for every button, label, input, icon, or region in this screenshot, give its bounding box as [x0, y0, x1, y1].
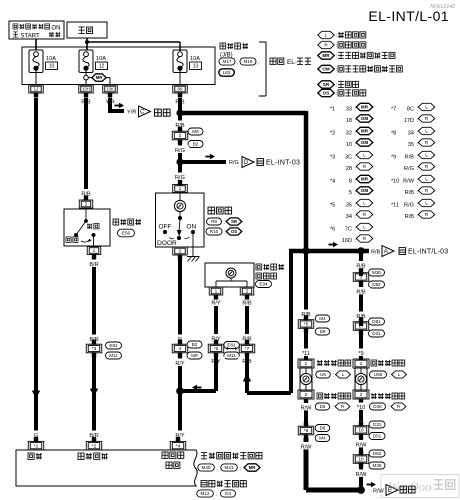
svg-text:R/B: R/B: [405, 155, 415, 161]
svg-text:ON: ON: [187, 223, 197, 230]
svg-text:10A: 10A: [190, 56, 200, 62]
connector *8 (D8/M4): [298, 422, 314, 440]
node: junction at left footwell feed: [302, 247, 310, 255]
svg-text:D51: D51: [373, 434, 382, 439]
svg-text:M9: M9: [192, 129, 199, 134]
svg-text:SR: SR: [231, 219, 238, 224]
connector 1J: [29, 85, 44, 98]
time control unit label and badges: [197, 481, 247, 499]
svg-text:1: 1: [360, 361, 363, 367]
right step lamp bulb: [355, 373, 366, 384]
connector 4 (B2/M9): [172, 340, 188, 358]
svg-text:OS: OS: [323, 91, 330, 96]
svg-text:R/W: R/W: [356, 442, 368, 448]
svg-text:OM: OM: [361, 140, 369, 145]
svg-text:*9: *9: [391, 155, 396, 161]
arrow on R/G horizontal wire: [206, 154, 216, 160]
svg-text:B2: B2: [192, 342, 198, 347]
label R/B above key switch: [77, 189, 95, 197]
wire: ignition feed stub: [35, 39, 37, 50]
badges E81 M11 shared between *6 and *7: [224, 342, 240, 360]
wire *9 color to right lamp: [359, 333, 363, 360]
svg-text:EL-INT/L-03: EL-INT/L-03: [408, 249, 448, 256]
svg-text:R10: R10: [210, 229, 219, 234]
svg-text:10: 10: [49, 64, 55, 70]
svg-text:,: ,: [237, 60, 238, 66]
svg-text::: :: [355, 227, 356, 233]
svg-text:M41: M41: [225, 465, 234, 470]
svg-text:10: 10: [346, 142, 352, 148]
svg-text:R/B: R/B: [356, 289, 366, 295]
connector *5 (M4/D6): [298, 315, 314, 333]
svg-text::: :: [417, 118, 418, 124]
svg-text:D31: D31: [372, 331, 381, 336]
wire: fuse F1 to connector 1J: [35, 70, 37, 85]
svg-text:17: 17: [358, 324, 364, 330]
fuse box name and connector badges M17 M19 L63: [219, 43, 260, 76]
svg-text:18: 18: [346, 118, 352, 124]
svg-text:OS: OS: [231, 229, 237, 234]
wire R/B junction to connector 2: [178, 113, 182, 127]
svg-text:R/W: R/W: [356, 472, 368, 478]
label ignition inside box: [28, 453, 34, 459]
badges D8 M4 at *8: [315, 425, 330, 442]
svg-text::: :: [388, 405, 389, 411]
svg-text:*3: *3: [330, 155, 335, 161]
node: junction R/B to EL-INT/L-03 feed: [176, 109, 183, 116]
svg-text::: :: [389, 373, 390, 379]
svg-text:R/Y: R/Y: [175, 361, 185, 367]
svg-text:*6: *6: [330, 227, 335, 233]
svg-text:M11: M11: [109, 353, 118, 358]
svg-text:D82: D82: [372, 282, 381, 287]
svg-text:R/W: R/W: [301, 405, 313, 411]
svg-text:R/G: R/G: [175, 175, 185, 181]
page reference A to EL-INT/L-03: [382, 246, 448, 257]
node: bottom junction R/W: [357, 486, 365, 494]
svg-text:7C: 7C: [345, 227, 352, 233]
wire B/R from key switch down: [92, 254, 96, 336]
node: battery branch junction: [85, 40, 89, 44]
label R/Y below connector 4: [171, 359, 189, 367]
svg-text:*2: *2: [92, 443, 97, 449]
arrow on Y/R wire: [115, 103, 125, 109]
svg-text:R/B: R/B: [405, 214, 415, 220]
svg-text:35: 35: [408, 142, 414, 148]
wire: battery feed stub and branch to fuse 3: [87, 38, 180, 51]
room lamp pin 2: [173, 247, 188, 260]
svg-text:M4: M4: [319, 436, 326, 441]
arrow right at bottom junction: [367, 482, 377, 488]
label R/G above room lamp: [171, 173, 189, 181]
label R/B above connector 2: [171, 121, 189, 129]
svg-text:1: 1: [179, 186, 182, 192]
svg-text:.: .: [217, 466, 218, 472]
connector 8K: [173, 85, 188, 98]
connector 10 (D62/M36): [353, 450, 369, 468]
svg-text:*7: *7: [245, 346, 250, 352]
connector 16 (G31/D51): [353, 421, 369, 439]
svg-text:34: 34: [408, 131, 414, 137]
svg-text:10K: 10K: [106, 86, 114, 91]
wire R/Y junction to *4: [178, 391, 182, 431]
svg-text:*3: *3: [92, 346, 97, 352]
svg-text:10A: 10A: [46, 56, 56, 62]
smart entry control unit label and badges: [198, 453, 262, 473]
svg-text:2: 2: [179, 249, 182, 255]
svg-text::: :: [355, 155, 356, 161]
svg-text::: :: [355, 238, 356, 244]
badges M9 B2 at connector 2: [188, 128, 203, 148]
svg-text:R/G: R/G: [404, 166, 414, 172]
label R/B above connector 3: [352, 261, 370, 269]
variant pin table: [330, 103, 435, 244]
wire R/B stub to page A: [361, 249, 369, 254]
box: ignition switch ON/START condition: [9, 21, 64, 40]
svg-text:M40: M40: [202, 465, 211, 470]
label R/B below *7: [238, 357, 256, 365]
label B/R below key switch: [85, 260, 103, 268]
right step lamp pin 2: [353, 390, 369, 399]
label R/Y above *4: [171, 431, 189, 440]
svg-text:R/Y: R/Y: [211, 301, 221, 307]
svg-text:G31: G31: [373, 422, 382, 427]
wire R room lamp to connector 4: [178, 258, 182, 336]
svg-text::: :: [417, 166, 418, 172]
svg-text:8: 8: [349, 179, 352, 185]
svg-text:L: L: [363, 201, 366, 206]
svg-text:L: L: [425, 153, 428, 158]
svg-text:R/G: R/G: [229, 160, 239, 166]
svg-text:16D: 16D: [342, 238, 352, 244]
connector *7: [239, 340, 255, 358]
badges M30 D82 at connector 3: [369, 269, 385, 288]
fuse F2 10A #12: [79, 50, 108, 73]
svg-text:M9: M9: [191, 353, 198, 358]
svg-text:NFEL0142: NFEL0142: [430, 4, 455, 10]
svg-text:2: 2: [246, 289, 249, 295]
label R/W above elbow: [297, 442, 315, 450]
label R/Y above *6: [207, 334, 225, 342]
svg-text:*11: *11: [391, 203, 399, 209]
svg-text:L: L: [363, 153, 366, 158]
right step lamp labels RHD: [370, 393, 407, 411]
svg-text:D6: D6: [320, 329, 326, 334]
wire R/G horizontal to page D: [180, 160, 226, 164]
svg-text:WeeQoo: WeeQoo: [388, 479, 432, 494]
svg-text:R/B: R/B: [242, 301, 252, 307]
connector 10K: [103, 85, 118, 98]
label R/Y below *6: [207, 357, 225, 365]
badges D62 M36 at connector 10: [369, 450, 385, 469]
key switch name label and badge E56: [113, 219, 141, 237]
fuse box (J/B) outline: [22, 47, 215, 85]
wire: fuse F2 output with MR variant loop to 10K: [84, 70, 110, 85]
badges G31 D51 at connector 16: [369, 421, 385, 440]
key switch box: [64, 208, 110, 246]
right step lamp body: [355, 368, 367, 390]
left step lamp bulb: [300, 373, 311, 384]
svg-text:1: 1: [305, 361, 308, 367]
svg-text:13: 13: [193, 64, 199, 70]
svg-text:R/W: R/W: [373, 488, 385, 494]
right step lamp pin 1: [353, 359, 369, 368]
svg-text:L: L: [425, 177, 428, 182]
key illumination pin 1: [209, 287, 223, 300]
wire B/R from *3 to *2: [92, 356, 96, 431]
svg-text::: :: [417, 131, 418, 137]
wire room lamp ON to ground: [192, 234, 194, 256]
svg-text:*8: *8: [304, 428, 309, 434]
svg-text:E56: E56: [122, 231, 131, 236]
svg-text:2: 2: [85, 202, 88, 208]
svg-text:*10: *10: [357, 405, 365, 411]
svg-text:E81: E81: [227, 343, 236, 348]
svg-text:L: L: [425, 201, 428, 206]
wire G vertical run: [34, 98, 38, 431]
wire Y/R elbow to next page: [108, 98, 124, 111]
svg-text:1J: 1J: [34, 87, 39, 92]
svg-text:8K: 8K: [177, 87, 182, 92]
svg-text:U58: U58: [374, 372, 383, 377]
svg-text:D: D: [244, 160, 249, 166]
svg-text:5: 5: [349, 190, 352, 196]
svg-text:M30: M30: [372, 270, 381, 275]
wire *11 color to lamp: [304, 332, 308, 360]
svg-text:M12: M12: [201, 491, 210, 496]
wire R/Y connector 4 to junction: [178, 356, 182, 391]
svg-text::: :: [355, 203, 356, 209]
svg-text::: :: [417, 107, 418, 113]
svg-text::: :: [417, 190, 418, 196]
svg-text:MR: MR: [361, 129, 369, 134]
svg-text:U6: U6: [320, 372, 326, 377]
label *10: [353, 403, 369, 411]
node: junction at right footwell feed: [357, 247, 365, 255]
connector 10H: [79, 85, 94, 98]
svg-text:R/G: R/G: [404, 203, 414, 209]
arrow on feed wire: [329, 242, 339, 248]
svg-text:OM: OM: [361, 188, 369, 193]
room lamp pin 1: [173, 180, 188, 193]
svg-text:M11: M11: [227, 353, 236, 358]
svg-text:,: ,: [258, 60, 259, 66]
svg-text:OM: OM: [361, 116, 369, 121]
bracket: see EL-POWER: [259, 42, 266, 96]
svg-text::: :: [333, 373, 334, 379]
wire R/W to bottom junction: [359, 466, 363, 490]
svg-text:DOOR: DOOR: [157, 240, 177, 247]
svg-text:D4: D4: [225, 491, 231, 496]
wire R/B from 8K to junction: [178, 98, 182, 113]
wire R/Y key illum down: [214, 306, 218, 340]
wire R/B feed vertical right: [304, 111, 309, 251]
wire R/W to bottom elbow: [306, 438, 359, 490]
svg-text:B2: B2: [193, 142, 199, 147]
left step lamp labels LHD: [316, 360, 351, 379]
svg-text:D36: D36: [373, 404, 382, 409]
wire R/B feed to connector 3: [359, 251, 363, 276]
wire R/G to room lamp pin 1: [178, 162, 182, 186]
svg-text:M17: M17: [223, 59, 232, 64]
room lamp switch internals OFF/DOOR/ON: [157, 212, 196, 247]
control unit box (smart entry / time control): [16, 450, 197, 486]
connector *2 at control unit: [86, 437, 102, 450]
svg-text:L: L: [363, 225, 366, 230]
svg-text:2: 2: [360, 392, 363, 398]
svg-text:EL-INT/L-01: EL-INT/L-01: [368, 8, 449, 24]
svg-text:*9: *9: [358, 351, 363, 357]
label R/B below connector 3: [352, 287, 370, 295]
svg-text:4: 4: [179, 346, 182, 352]
wire R/B connector 3 to 17: [359, 284, 363, 326]
svg-text:*5: *5: [330, 203, 335, 209]
svg-text:32: 32: [346, 131, 352, 137]
svg-text:*1: *1: [34, 443, 39, 449]
connector *4 at control unit: [170, 437, 186, 450]
svg-text:L: L: [325, 33, 328, 38]
label room lamp output inside box: [162, 452, 184, 468]
svg-text:R8: R8: [211, 219, 217, 224]
svg-text:*4: *4: [330, 179, 335, 185]
svg-text:L: L: [425, 105, 428, 110]
svg-text:D5: D5: [320, 404, 326, 409]
svg-text:*10: *10: [391, 179, 399, 185]
svg-text::: :: [355, 214, 356, 220]
ground symbol: [187, 257, 200, 262]
svg-text:C: C: [140, 110, 145, 116]
key illumination pin 2: [240, 287, 254, 300]
svg-text::: :: [417, 142, 418, 148]
left step lamp labels RHD: [315, 393, 351, 411]
arrow down on wire G: [32, 391, 40, 399]
svg-text::: :: [417, 179, 418, 185]
left step lamp pin 2: [298, 390, 314, 399]
svg-text:L: L: [398, 372, 401, 377]
arrow up on R/B wire: [243, 374, 251, 382]
svg-text:A: A: [384, 249, 388, 255]
badges D81 D31 at connector 17: [369, 318, 385, 337]
label *9: [355, 349, 367, 357]
svg-text::: :: [224, 220, 225, 226]
left step lamp body: [300, 368, 312, 390]
key switch pin 1: [87, 247, 101, 255]
svg-text:D8: D8: [320, 426, 326, 431]
svg-text:R/B: R/B: [371, 249, 381, 255]
svg-text::: :: [240, 466, 241, 472]
svg-text:*7: *7: [391, 107, 396, 113]
svg-text:M19: M19: [244, 59, 253, 64]
wire R/B feed horizontal top: [180, 111, 306, 116]
ignition key hole illumination box: [205, 263, 254, 287]
connector *1 at control unit: [28, 437, 44, 450]
svg-text:MR: MR: [249, 465, 257, 470]
label R/B above connector 17: [352, 312, 370, 320]
label key switch inside box: [78, 453, 84, 459]
svg-text:1: 1: [215, 289, 218, 295]
connector 2 (M9/B2): [172, 127, 188, 145]
key hole illumination name and badge E94: [256, 264, 285, 288]
label R/W between 16 and 10: [352, 440, 370, 448]
svg-text::: :: [417, 203, 418, 209]
page reference D to EL-INT-03: [242, 157, 300, 168]
svg-text:M4: M4: [319, 316, 326, 321]
svg-text:.: .: [216, 492, 217, 498]
svg-text:E81: E81: [109, 343, 118, 348]
svg-text:MR: MR: [361, 177, 369, 182]
svg-text:L: L: [342, 372, 345, 377]
svg-text:3C: 3C: [345, 155, 352, 161]
svg-text:MR: MR: [361, 105, 369, 110]
svg-text:L: L: [425, 129, 428, 134]
label R above connector 4: [174, 335, 186, 343]
wire *10 below right lamp: [359, 399, 363, 421]
arrow down on wire B/R: [90, 389, 98, 397]
wire R/B from 10H to key switch: [84, 98, 88, 196]
svg-text:*5: *5: [304, 322, 309, 328]
svg-text:EL-INT-03: EL-INT-03: [266, 160, 300, 167]
svg-text:33: 33: [346, 107, 352, 113]
label R/G below connector 2: [171, 146, 189, 154]
svg-text:*1: *1: [330, 107, 335, 113]
svg-text::: :: [332, 405, 333, 411]
label B/R above *3: [85, 335, 103, 343]
svg-text:Y/R: Y/R: [127, 110, 136, 116]
fuse F3 10A #13: [173, 50, 202, 73]
room lamp name and badges: [206, 207, 242, 236]
svg-text:START: START: [21, 34, 40, 40]
connector *3: [86, 340, 102, 358]
connector *6: [208, 340, 224, 358]
connector 3 (M30/D82): [353, 268, 369, 286]
label *11: [299, 349, 313, 357]
wire R/B feed to *5: [304, 251, 308, 316]
svg-text:*4: *4: [176, 443, 181, 449]
svg-text:*6: *6: [214, 346, 219, 352]
svg-text:10A: 10A: [96, 56, 106, 62]
svg-text:R/W: R/W: [301, 444, 313, 450]
svg-text:3: 3: [360, 275, 363, 281]
svg-text:8C: 8C: [407, 107, 414, 113]
node: junction R/G to EL-INT-03: [176, 158, 183, 165]
variant badge MR at fuse 2: [92, 74, 106, 82]
svg-text:D81: D81: [372, 319, 381, 324]
svg-text:10: 10: [358, 457, 364, 463]
svg-text:*8: *8: [391, 131, 396, 137]
wire: fuse F3 to connector 8K: [179, 70, 181, 85]
svg-text:R/W: R/W: [403, 179, 415, 185]
svg-text:OFF: OFF: [159, 223, 172, 230]
badges B2 M9 at connector 4: [187, 341, 202, 359]
room lamp bulb: [174, 200, 185, 211]
wire R/W connector 16 to 10: [359, 437, 363, 455]
svg-text:35: 35: [346, 203, 352, 209]
room lamp box: [156, 193, 205, 248]
wire feed horizontal to A junction: [289, 249, 361, 254]
wire R/W below left lamp: [304, 399, 308, 422]
connector 17 (D81/D31): [353, 317, 369, 335]
svg-text:ON: ON: [52, 26, 61, 32]
svg-text:E94: E94: [259, 282, 268, 287]
label R/W below left lamp: [297, 403, 315, 411]
key hole illumination bulb: [226, 268, 236, 278]
svg-text:*11: *11: [302, 351, 310, 357]
badges M4 D6 at *5: [315, 315, 330, 335]
right step lamp labels LHD: [370, 360, 407, 379]
svg-text:17D: 17D: [404, 118, 414, 124]
badges E81 M11 at connector *3: [106, 342, 122, 359]
label R/B above *7: [238, 334, 256, 342]
